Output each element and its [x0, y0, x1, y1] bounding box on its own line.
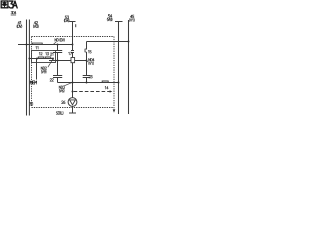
switch 11 — [32, 43, 42, 44]
junction dot dashed takeoff — [72, 91, 74, 93]
pointer ND4 — [87, 61, 88, 62]
capacitor 22 — [53, 61, 62, 83]
dashed signal wire — [74, 91, 110, 93]
dashed block 30 right edge — [113, 37, 115, 110]
label 41 (0V) — [18, 21, 21, 24]
bus line 42 — [28, 20, 30, 116]
title 図3A — [1, 1, 8, 8]
label 42 (V0) — [34, 21, 38, 24]
terminal bottom — [69, 112, 76, 114]
sense block box — [32, 51, 56, 63]
switch 12 — [38, 57, 44, 59]
figure number 304 — [11, 11, 16, 14]
component box 16 — [71, 58, 75, 63]
junction dot 42 row — [28, 58, 30, 60]
switch 15 — [85, 42, 87, 61]
junction dot 41/ND — [26, 44, 28, 46]
label 54 (VB) — [108, 14, 112, 17]
dashed block 30 top edge — [32, 36, 115, 38]
wire driver out — [72, 106, 74, 113]
junction dot left of switch 12 — [36, 58, 38, 60]
driver 26 — [68, 98, 77, 107]
pointer ND — [54, 42, 57, 44]
arrowhead on right edge — [113, 109, 116, 112]
label MEM — [30, 81, 36, 84]
bus2 wire — [58, 82, 119, 84]
bus line 54/VB — [118, 22, 120, 115]
switch 13 — [45, 57, 51, 59]
junction dot ND/cap21 — [57, 44, 59, 46]
bus line 41 — [26, 20, 28, 116]
wire V0 row — [29, 58, 53, 60]
label 45 (V1) — [130, 15, 134, 18]
terminal 53 — [69, 21, 75, 23]
label ND3 (V6) — [59, 86, 65, 89]
junction dot cap21/bus1 — [57, 60, 59, 62]
arrowhead dashed signal — [110, 90, 113, 92]
block label 30 — [29, 103, 32, 106]
pointer ND3 — [65, 83, 72, 86]
junction dot ND/53 — [72, 44, 74, 46]
switch bar near 53 — [74, 24, 77, 27]
label 53 (D4) — [65, 16, 69, 19]
underline smudge — [11, 14, 16, 17]
switch 17 — [71, 45, 74, 58]
junction dot bus2/23 — [86, 82, 88, 84]
capacitor 21 — [53, 45, 62, 61]
wire elbow node ND2 — [52, 59, 54, 61]
bus1 wire right — [75, 60, 87, 62]
wire MEM drop — [36, 59, 38, 80]
node ND wire (0V row) — [18, 44, 73, 46]
capacitor 23 — [83, 61, 91, 83]
label S0(L) — [56, 111, 63, 114]
bus1 wire left — [49, 60, 71, 62]
bus line 45/V1 — [128, 20, 130, 114]
label ND4 (V1) — [89, 58, 95, 61]
dashed block 30 bottom edge — [32, 107, 115, 109]
switch 14 — [102, 81, 108, 83]
wire 53 vertical — [72, 22, 74, 45]
label ND2 (V9) — [41, 67, 47, 70]
label ND (0V) — [55, 38, 64, 41]
dashed block 30 left edge — [31, 37, 33, 107]
junction dot link/V1 — [128, 41, 130, 43]
junction dot bus2/VB — [118, 82, 120, 84]
junction dot bus2/driver — [72, 82, 74, 84]
pointer ND2 — [48, 59, 53, 67]
junction dot 15/bus1 — [86, 60, 88, 62]
wire 16 to driver — [72, 63, 74, 98]
terminal 54 — [115, 21, 123, 23]
junction dot node ND2 — [52, 58, 54, 60]
wire row V1 link — [87, 41, 129, 43]
